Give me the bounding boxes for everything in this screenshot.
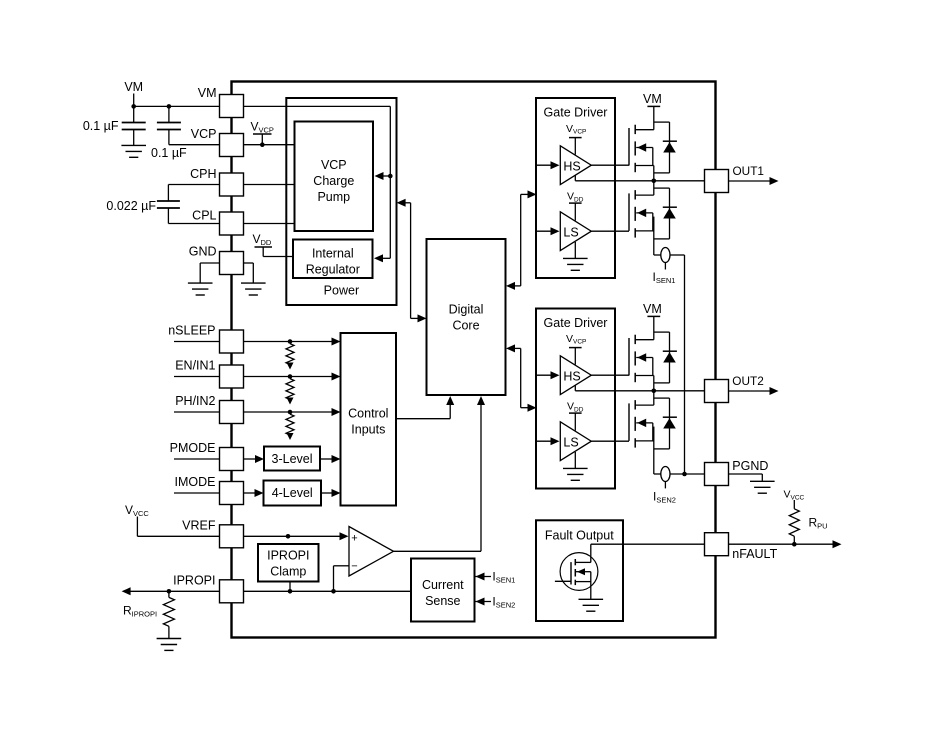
svg-text:0.1 µF: 0.1 µF <box>83 119 119 133</box>
svg-text:Pump: Pump <box>317 190 350 204</box>
svg-text:LS: LS <box>563 435 578 449</box>
svg-text:HS: HS <box>563 369 580 383</box>
svg-text:VREF: VREF <box>182 519 216 533</box>
svg-text:PH/IN2: PH/IN2 <box>175 394 215 408</box>
svg-text:3-Level: 3-Level <box>272 452 313 466</box>
svg-text:HS: HS <box>563 159 580 173</box>
svg-text:OUT1: OUT1 <box>733 164 764 178</box>
svg-text:0.1 µF: 0.1 µF <box>151 146 187 160</box>
svg-text:+: + <box>351 532 357 544</box>
svg-text:Charge: Charge <box>313 174 354 188</box>
svg-text:Gate Driver: Gate Driver <box>544 106 608 120</box>
svg-text:VCP: VCP <box>191 127 217 141</box>
svg-text:IMODE: IMODE <box>175 475 216 489</box>
svg-text:VM: VM <box>643 92 662 106</box>
svg-text:Regulator: Regulator <box>306 263 360 277</box>
svg-text:IPROPI: IPROPI <box>173 573 215 587</box>
svg-text:VCP: VCP <box>321 158 347 172</box>
svg-text:Sense: Sense <box>425 594 460 608</box>
svg-text:VM: VM <box>124 80 143 94</box>
svg-text:Gate Driver: Gate Driver <box>544 316 608 330</box>
svg-text:−: − <box>351 560 357 572</box>
svg-text:Current: Current <box>422 578 464 592</box>
svg-text:CPL: CPL <box>192 209 216 223</box>
svg-text:EN/IN1: EN/IN1 <box>175 359 215 373</box>
svg-text:Digital: Digital <box>449 303 484 317</box>
svg-text:VM: VM <box>198 86 217 100</box>
svg-text:nSLEEP: nSLEEP <box>168 324 215 338</box>
svg-text:Internal: Internal <box>312 247 354 261</box>
svg-text:GND: GND <box>189 245 217 259</box>
svg-text:Core: Core <box>452 319 479 333</box>
svg-text:Control: Control <box>348 407 388 421</box>
svg-text:VM: VM <box>643 302 662 316</box>
svg-text:0.022 µF: 0.022 µF <box>106 199 156 213</box>
svg-text:IPROPI: IPROPI <box>267 549 309 563</box>
svg-text:PGND: PGND <box>732 459 768 473</box>
svg-text:Power: Power <box>324 284 359 298</box>
svg-text:PMODE: PMODE <box>170 441 216 455</box>
svg-text:Clamp: Clamp <box>270 565 306 579</box>
svg-text:OUT2: OUT2 <box>732 374 763 388</box>
svg-text:Inputs: Inputs <box>351 423 385 437</box>
svg-text:4-Level: 4-Level <box>272 486 313 500</box>
svg-text:Fault Output: Fault Output <box>545 529 614 543</box>
svg-text:CPH: CPH <box>190 167 216 181</box>
svg-text:nFAULT: nFAULT <box>732 547 777 561</box>
svg-text:LS: LS <box>563 225 578 239</box>
